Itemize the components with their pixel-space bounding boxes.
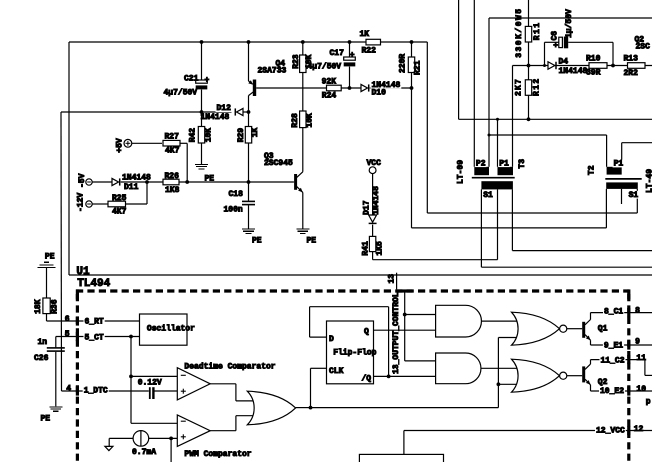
svg-text:U1: U1	[76, 266, 90, 278]
svg-text:LT-49: LT-49	[646, 169, 652, 193]
svg-text:10K: 10K	[306, 113, 315, 128]
svg-text:R24: R24	[322, 92, 337, 101]
svg-text:R26: R26	[165, 172, 180, 181]
svg-text:92K: 92K	[322, 78, 337, 87]
svg-text:1K8: 1K8	[165, 186, 180, 195]
svg-text:4µ7/50V: 4µ7/50V	[164, 89, 198, 98]
svg-text:Q: Q	[364, 328, 369, 337]
svg-text:2K7: 2K7	[515, 78, 524, 96]
svg-text:R25: R25	[112, 194, 127, 203]
svg-text:LT-09: LT-09	[457, 160, 466, 184]
svg-text:R41: R41	[361, 241, 370, 256]
svg-text:100n: 100n	[224, 205, 243, 214]
svg-text:13: 13	[388, 274, 397, 284]
svg-text:0.7mA: 0.7mA	[132, 448, 156, 457]
svg-text:C17: C17	[330, 49, 345, 58]
svg-text:P1: P1	[499, 159, 509, 168]
svg-text:T2: T2	[587, 165, 596, 175]
svg-text:5_CT: 5_CT	[85, 333, 104, 342]
svg-text:C18: C18	[229, 190, 244, 199]
svg-text:+: +	[553, 42, 558, 51]
svg-text:2R2: 2R2	[624, 69, 639, 78]
svg-text:D11: D11	[124, 183, 139, 192]
svg-text:11_C2: 11_C2	[601, 357, 625, 366]
svg-text:TL494: TL494	[77, 278, 110, 290]
svg-text:R27: R27	[165, 133, 180, 142]
svg-text:PE: PE	[45, 253, 55, 262]
svg-text:+: +	[205, 76, 210, 85]
svg-text:-12V: -12V	[77, 193, 86, 212]
svg-text:330K/0W5: 330K/0W5	[515, 7, 524, 57]
svg-text:1K5: 1K5	[375, 241, 384, 256]
svg-text:PE: PE	[41, 415, 51, 424]
svg-text:R12: R12	[532, 77, 541, 96]
svg-text:13_OUTPUT_CONTROL: 13_OUTPUT_CONTROL	[392, 292, 401, 374]
svg-text:R29: R29	[237, 128, 246, 143]
svg-text:18K: 18K	[34, 299, 43, 314]
svg-text:4: 4	[66, 385, 71, 394]
svg-text:1N4148: 1N4148	[201, 113, 230, 122]
svg-text:8_C1: 8_C1	[604, 307, 623, 316]
svg-text:C21: C21	[184, 75, 199, 84]
svg-text:0.12V: 0.12V	[138, 379, 162, 388]
svg-text:P2: P2	[476, 159, 486, 168]
svg-text:C6: C6	[551, 31, 560, 41]
svg-text:PWM Comparator: PWM Comparator	[184, 450, 251, 459]
svg-text:6: 6	[65, 315, 70, 324]
svg-text:4K7: 4K7	[165, 146, 180, 155]
svg-text:CLK: CLK	[329, 367, 344, 376]
svg-text:39R: 39R	[586, 69, 601, 78]
svg-text:-5V: -5V	[78, 173, 87, 188]
svg-text:R28: R28	[291, 113, 300, 128]
svg-text:2SC945: 2SC945	[264, 159, 293, 168]
svg-text:R42: R42	[188, 128, 197, 143]
svg-text:PE: PE	[205, 175, 215, 184]
svg-text:Deadtime Comparator: Deadtime Comparator	[184, 363, 275, 372]
svg-text:1_DTC: 1_DTC	[84, 387, 108, 396]
svg-text:PE: PE	[307, 237, 317, 246]
svg-text:R11: R11	[533, 22, 542, 41]
svg-text:VCC: VCC	[367, 159, 382, 168]
svg-text:1N4148: 1N4148	[372, 186, 381, 215]
svg-text:S1: S1	[483, 191, 493, 200]
svg-text:R13: R13	[624, 55, 639, 64]
svg-text:10K: 10K	[305, 54, 314, 69]
svg-text:1n: 1n	[38, 338, 48, 347]
svg-text:Flip-Flop: Flip-Flop	[333, 348, 376, 357]
svg-text:T3: T3	[518, 159, 527, 169]
svg-text:5: 5	[65, 330, 70, 339]
svg-text:10_E2: 10_E2	[600, 387, 624, 396]
svg-text:12: 12	[634, 425, 644, 434]
svg-text:10: 10	[636, 385, 646, 394]
svg-text:p: p	[646, 397, 651, 406]
svg-text:1N4148: 1N4148	[559, 67, 588, 76]
svg-text:R36: R36	[51, 299, 60, 314]
svg-text:9_E1: 9_E1	[604, 342, 623, 351]
svg-text:PE: PE	[252, 237, 262, 246]
svg-text:8: 8	[635, 306, 640, 315]
svg-text:D17: D17	[363, 200, 372, 215]
svg-text:1K: 1K	[251, 127, 260, 137]
svg-text:1K: 1K	[360, 30, 370, 39]
svg-text:2SA733: 2SA733	[258, 66, 287, 75]
svg-text:P1: P1	[614, 160, 624, 169]
svg-text:D4: D4	[559, 57, 569, 66]
svg-text:1µ/50V: 1µ/50V	[565, 9, 574, 38]
svg-text:220R: 220R	[399, 54, 408, 73]
svg-text:C26: C26	[34, 354, 49, 363]
svg-text:Q1: Q1	[598, 325, 608, 334]
svg-text:11: 11	[636, 354, 646, 363]
svg-text:S1: S1	[629, 191, 639, 200]
svg-text:4K7: 4K7	[112, 208, 127, 217]
svg-text:R23: R23	[292, 54, 301, 69]
svg-text:/Q: /Q	[362, 375, 372, 384]
svg-text:1N4148: 1N4148	[122, 173, 151, 182]
svg-text:+5V: +5V	[115, 138, 124, 153]
svg-text:D: D	[329, 335, 334, 344]
svg-text:2SC: 2SC	[636, 43, 651, 52]
svg-text:Q2: Q2	[598, 378, 608, 387]
svg-text:D10: D10	[372, 88, 387, 97]
svg-text:R21: R21	[414, 60, 423, 75]
svg-text:10K: 10K	[205, 128, 214, 143]
svg-text:Oscillator: Oscillator	[147, 324, 195, 333]
svg-text:R10: R10	[586, 55, 601, 64]
svg-text:+: +	[350, 51, 355, 60]
svg-text:9: 9	[635, 338, 640, 347]
svg-text:6_RT: 6_RT	[85, 318, 104, 327]
svg-text:12_VCC: 12_VCC	[596, 426, 625, 435]
svg-text:R22: R22	[362, 46, 377, 55]
